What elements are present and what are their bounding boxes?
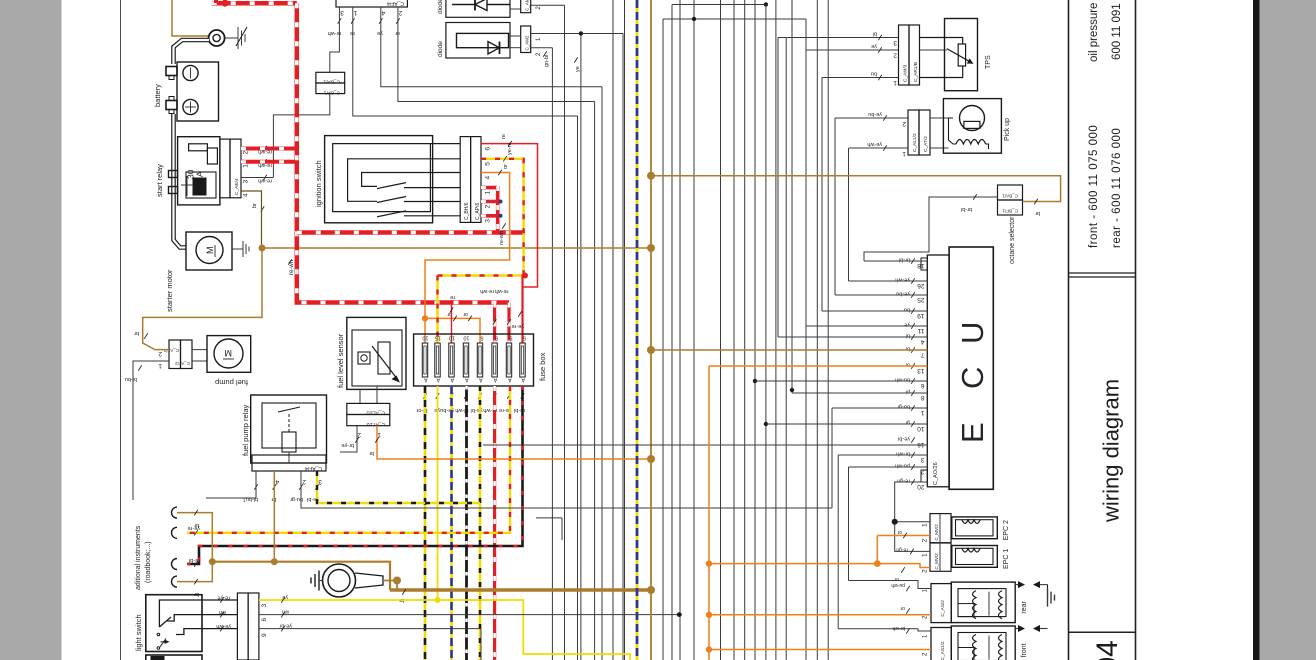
svg-text:wh: wh: [219, 609, 227, 615]
svg-text:br: br: [1035, 210, 1040, 216]
svg-text:ye-re: ye-re: [511, 323, 524, 329]
svg-text:2: 2: [357, 431, 361, 438]
svg-text:aditional instruments: aditional instruments: [135, 525, 142, 590]
svg-text:or: or: [503, 164, 509, 169]
svg-text:4: 4: [485, 176, 492, 180]
svg-text:EPC 2: EPC 2: [1003, 520, 1010, 540]
svg-text:M: M: [205, 247, 215, 255]
svg-text:C_AM/3: C_AM/3: [903, 64, 909, 82]
svg-text:br-ye: br-ye: [341, 442, 354, 448]
svg-text:bl-bu: bl-bu: [125, 376, 137, 382]
svg-text:3: 3: [921, 456, 925, 463]
svg-text:ye: ye: [575, 66, 581, 72]
svg-text:5: 5: [485, 162, 492, 166]
svg-text:C: C: [955, 367, 990, 389]
svg-text:re: re: [501, 134, 507, 139]
svg-text:2: 2: [485, 205, 492, 209]
svg-text:C_AS/2: C_AS/2: [940, 600, 946, 617]
svg-text:25: 25: [917, 296, 925, 303]
svg-text:10: 10: [422, 335, 428, 341]
svg-text:ye: ye: [282, 594, 288, 600]
svg-text:bl: bl: [906, 333, 910, 339]
svg-text:Pick up: Pick up: [1004, 118, 1011, 141]
svg-text:C_BA/1: C_BA/1: [323, 79, 340, 85]
svg-text:re-gn: re-gn: [897, 478, 910, 484]
svg-text:re-wh: re-wh: [495, 288, 509, 294]
svg-text:(roadbook;...): (roadbook;...): [145, 541, 152, 583]
svg-text:re-wh: re-wh: [289, 260, 295, 275]
svg-text:C_BF/1: C_BF/1: [1002, 209, 1018, 214]
svg-text:re-wh: re-wh: [258, 178, 272, 184]
svg-text:C_BF/1: C_BF/1: [323, 90, 340, 96]
svg-text:C_BA/1: C_BA/1: [1002, 194, 1018, 199]
svg-text:9: 9: [261, 633, 268, 637]
svg-text:U: U: [955, 322, 990, 344]
svg-text:light switch: light switch: [134, 614, 143, 651]
svg-text:3: 3: [485, 219, 492, 223]
svg-text:8: 8: [921, 394, 925, 401]
svg-text:6: 6: [485, 147, 492, 151]
svg-text:wh: wh: [282, 609, 290, 615]
svg-text:bu-gr: bu-gr: [897, 404, 910, 410]
svg-text:br-bl: br-bl: [899, 257, 910, 263]
svg-text:fuse box: fuse box: [538, 352, 547, 381]
svg-text:10: 10: [449, 335, 455, 341]
svg-text:20: 20: [917, 483, 925, 490]
svg-text:fuel pump: fuel pump: [215, 378, 248, 387]
svg-text:bu: bu: [904, 307, 910, 313]
svg-text:2: 2: [398, 9, 402, 16]
svg-text:1: 1: [902, 150, 906, 157]
svg-text:bu-wh: bu-wh: [895, 377, 910, 383]
svg-text:5: 5: [523, 335, 526, 341]
svg-text:10: 10: [917, 425, 925, 432]
svg-text:4: 4: [381, 9, 385, 16]
svg-text:13: 13: [917, 367, 925, 374]
svg-text:ye-bu: ye-bu: [868, 111, 882, 117]
svg-text:C_AL1/2: C_AL1/2: [912, 133, 918, 152]
svg-text:br-bl: br-bl: [961, 206, 972, 212]
svg-text:2: 2: [921, 468, 925, 475]
svg-text:C_MV/2: C_MV/2: [934, 553, 939, 570]
svg-text:C_AR1/B: C_AR1/B: [913, 62, 919, 82]
svg-text:600 11 091 000: 600 11 091 000: [1111, 0, 1123, 60]
svg-text:C_A1/2: C_A1/2: [163, 348, 179, 353]
svg-text:C_AL2/2: C_AL2/2: [366, 410, 385, 416]
svg-text:ye-wh: ye-wh: [867, 141, 882, 147]
svg-text:04: 04: [1091, 640, 1124, 660]
svg-text:1: 1: [243, 164, 250, 168]
svg-text:C_BH/6: C_BH/6: [464, 202, 470, 220]
svg-text:diode: diode: [437, 41, 444, 57]
svg-text:front: front: [1021, 643, 1028, 657]
svg-text:2: 2: [302, 478, 306, 485]
svg-text:6: 6: [921, 382, 925, 389]
svg-text:C_AM2: C_AM2: [525, 0, 530, 11]
svg-text:2: 2: [243, 151, 250, 155]
svg-text:oil pressure sw: oil pressure sw: [1088, 0, 1100, 62]
svg-text:battery: battery: [153, 84, 162, 107]
svg-text:19: 19: [917, 312, 925, 319]
svg-text:C_MV/2: C_MV/2: [934, 524, 939, 541]
svg-text:10: 10: [463, 335, 469, 341]
svg-text:1: 1: [893, 79, 897, 86]
svg-text:5: 5: [495, 335, 498, 341]
svg-text:or: or: [395, 30, 400, 36]
svg-text:br-wh: br-wh: [896, 451, 910, 457]
svg-text:C_AS1/2: C_AS1/2: [940, 641, 946, 660]
svg-text:C_AP/6: C_AP/6: [475, 203, 481, 220]
svg-text:re-wh: re-wh: [499, 231, 505, 245]
svg-text:4: 4: [275, 478, 279, 485]
svg-text:ye-bu: ye-bu: [896, 291, 910, 297]
svg-text:re-gn: re-gn: [896, 546, 908, 552]
svg-text:C_AM2: C_AM2: [525, 35, 530, 51]
svg-text:M: M: [225, 348, 233, 358]
svg-text:gr: gr: [905, 420, 910, 426]
svg-text:TPS: TPS: [985, 55, 992, 69]
svg-text:or: or: [894, 576, 899, 582]
svg-text:rear - 600 11 076 000: rear - 600 11 076 000: [1111, 128, 1123, 248]
svg-text:ye-re: ye-re: [507, 142, 513, 155]
svg-text:re-wh: re-wh: [480, 288, 494, 294]
svg-text:1: 1: [485, 191, 492, 195]
svg-text:front - 600 11 075 000: front - 600 11 075 000: [1088, 125, 1100, 248]
svg-text:C_AO/26: C_AO/26: [933, 462, 939, 485]
svg-text:18: 18: [917, 262, 925, 269]
svg-text:6: 6: [261, 618, 268, 622]
svg-text:bl: bl: [873, 31, 877, 37]
svg-text:1: 1: [922, 523, 929, 527]
svg-text:EPC 1: EPC 1: [1003, 549, 1010, 569]
svg-text:bu: bu: [871, 71, 877, 77]
svg-text:rear: rear: [1021, 600, 1028, 613]
svg-text:ye-re: ye-re: [187, 525, 200, 531]
svg-text:3: 3: [893, 39, 897, 46]
svg-text:re: re: [450, 294, 455, 300]
svg-text:re-bl: re-bl: [189, 557, 200, 563]
svg-text:diode: diode: [437, 0, 444, 14]
svg-text:fuel pump relay: fuel pump relay: [241, 404, 250, 456]
svg-text:C_AF/4: C_AF/4: [305, 465, 322, 471]
svg-text:11: 11: [917, 327, 924, 334]
svg-text:3: 3: [340, 9, 344, 16]
svg-text:pu-wh: pu-wh: [895, 463, 910, 469]
svg-text:br: br: [369, 450, 374, 456]
svg-text:E: E: [955, 422, 990, 443]
svg-text:3: 3: [243, 180, 250, 184]
svg-text:C_AT/2: C_AT/2: [923, 136, 929, 152]
svg-text:1: 1: [353, 9, 357, 16]
svg-text:C_AT/2: C_AT/2: [175, 361, 190, 366]
svg-text:5: 5: [509, 335, 512, 341]
svg-text:2: 2: [922, 539, 929, 543]
svg-text:C_AF/4: C_AF/4: [387, 0, 404, 6]
svg-text:re-ye: re-ye: [217, 595, 230, 601]
svg-text:or: or: [897, 529, 902, 535]
svg-text:2: 2: [902, 120, 906, 127]
svg-text:pi: pi: [906, 389, 910, 395]
svg-text:start relay: start relay: [155, 164, 164, 197]
svg-text:wiring diagram: wiring diagram: [1099, 379, 1124, 523]
svg-text:gn-bl: gn-bl: [544, 55, 550, 67]
svg-text:1: 1: [922, 553, 929, 557]
svg-text:5: 5: [480, 335, 483, 341]
svg-text:7: 7: [921, 351, 925, 358]
svg-text:br-wh: br-wh: [892, 625, 905, 631]
svg-text:ye-br: ye-br: [279, 623, 292, 629]
svg-text:or: or: [463, 311, 468, 317]
svg-text:ye-wh: ye-wh: [216, 623, 231, 629]
svg-text:4: 4: [243, 193, 250, 197]
svg-text:fuel level sensor: fuel level sensor: [336, 333, 345, 388]
svg-text:pu-wh: pu-wh: [891, 582, 905, 588]
svg-text:ye-br: ye-br: [897, 436, 910, 442]
svg-text:starter motor: starter motor: [165, 269, 174, 312]
svg-text:2: 2: [922, 569, 929, 573]
svg-text:C_AE/4: C_AE/4: [234, 178, 240, 195]
svg-text:ye: ye: [871, 43, 877, 49]
svg-text:1: 1: [158, 362, 162, 369]
svg-text:ye-wh: ye-wh: [895, 277, 910, 283]
svg-text:ignition switch: ignition switch: [314, 160, 323, 207]
svg-text:2: 2: [158, 350, 162, 357]
svg-text:br: br: [252, 203, 258, 208]
svg-text:C_AT1/2: C_AT1/2: [366, 421, 385, 427]
svg-text:26: 26: [917, 282, 925, 289]
svg-text:3: 3: [261, 604, 268, 608]
svg-text:or: or: [900, 605, 905, 611]
svg-text:ye: ye: [377, 30, 383, 36]
svg-text:2: 2: [893, 52, 897, 59]
svg-text:br: br: [134, 330, 139, 336]
svg-text:4: 4: [921, 338, 925, 345]
svg-text:ye: ye: [904, 322, 910, 328]
svg-text:3: 3: [318, 478, 322, 485]
svg-text:15: 15: [435, 335, 441, 341]
svg-text:octane selector: octane selector: [1009, 216, 1016, 264]
svg-text:1: 1: [921, 409, 925, 416]
